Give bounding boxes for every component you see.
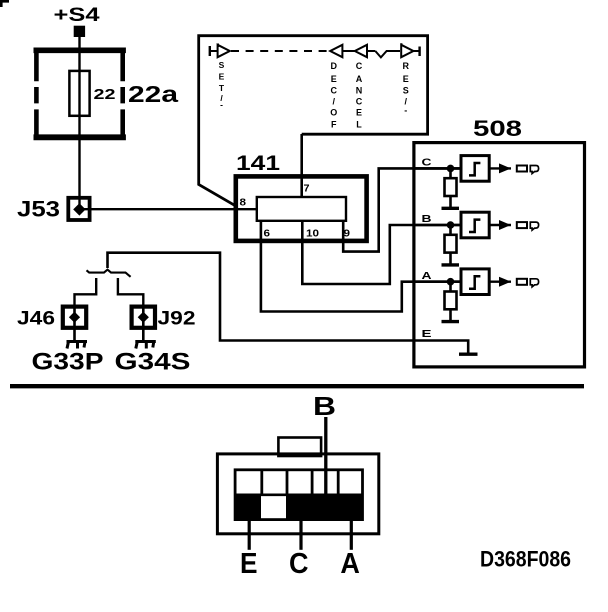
svg-text:C: C — [356, 97, 363, 107]
output wire B — [489, 224, 511, 226]
svg-text:S: S — [219, 60, 225, 70]
wire J53 to 141 pin 8 — [83, 208, 257, 210]
svg-text:D: D — [331, 61, 338, 71]
junction dot B — [447, 221, 455, 229]
svg-text:E: E — [356, 108, 362, 118]
SET arrow (diode right) — [218, 44, 230, 58]
svg-text:/: / — [333, 97, 336, 107]
sender symbol G34S — [135, 342, 156, 349]
input wire A inside 508 — [415, 280, 461, 283]
fuse holder 22a dashed box bottom edge — [34, 134, 126, 140]
svg-text:S: S — [403, 86, 409, 96]
input wire B inside 508 — [415, 224, 461, 227]
output arrow head C — [499, 163, 511, 173]
threshold trigger box C — [461, 156, 489, 182]
terminal +S4 square — [74, 26, 85, 37]
svg-text:8: 8 — [240, 198, 247, 209]
svg-text:A: A — [422, 270, 433, 282]
resistor A lower stub — [449, 309, 452, 320]
svg-text:E: E — [331, 74, 337, 84]
mechanical link (brace) between switches — [87, 270, 131, 277]
grid divider 1 — [260, 470, 263, 495]
svg-text:T: T — [219, 83, 225, 93]
svg-text:G34S: G34S — [115, 349, 191, 376]
svg-text:7: 7 — [304, 184, 310, 195]
wire branch to J92 — [118, 278, 143, 306]
svg-text:N: N — [356, 86, 363, 96]
wire switch box to pin 7 — [300, 134, 303, 198]
resistor A body — [445, 292, 457, 310]
wire J92 to sender G34S — [142, 306, 145, 340]
svg-text:E: E — [219, 72, 225, 82]
svg-text:R: R — [403, 61, 410, 71]
grid divider 2 — [286, 470, 289, 495]
control unit 141 box — [236, 176, 367, 241]
output symbol flag B — [530, 222, 538, 230]
blocked terminal left (E) — [236, 495, 261, 519]
connector housing tab — [278, 438, 321, 457]
wire J46 to sender G33P — [73, 306, 76, 340]
resistor B body — [445, 235, 457, 253]
fuse holder 22a dashed box left edge — [34, 48, 39, 141]
svg-text:B: B — [422, 213, 433, 225]
svg-text:22a: 22a — [128, 81, 178, 107]
fuse 22 body — [69, 71, 89, 116]
wire branch to J46 — [75, 278, 97, 306]
connector J92 box — [132, 307, 155, 328]
pin lead A — [350, 520, 353, 550]
svg-text:J92: J92 — [158, 309, 196, 330]
ECU 508 box — [414, 143, 585, 367]
terminal grid outline — [235, 470, 362, 520]
svg-text:O: O — [330, 108, 337, 118]
svg-text:J53: J53 — [17, 197, 60, 222]
ground bar at E — [459, 353, 478, 356]
svg-text:E: E — [403, 74, 409, 84]
svg-text:+S4: +S4 — [54, 4, 100, 26]
wire pin 10 to 508 input B — [302, 219, 461, 284]
svg-text:E: E — [240, 548, 258, 580]
step glyph A — [469, 276, 480, 288]
connector strip inside 141 — [257, 197, 346, 221]
connector J46 contact diamond — [69, 312, 80, 323]
svg-text:-: - — [220, 100, 223, 110]
svg-text:F: F — [331, 119, 337, 129]
svg-text:-: - — [404, 106, 407, 116]
svg-text:E: E — [422, 328, 432, 340]
resistor C stub — [449, 168, 452, 178]
svg-text:10: 10 — [306, 229, 320, 240]
svg-text:B: B — [313, 391, 336, 421]
connector J46 box — [63, 307, 86, 328]
resistor A stub — [449, 282, 452, 292]
svg-text:C: C — [356, 61, 363, 71]
resistor B end bar — [442, 263, 460, 266]
CANCEL arrow (diode left) — [355, 45, 367, 57]
output symbol flag A — [530, 279, 538, 287]
junction dot C — [447, 165, 455, 173]
switch contact notch — [375, 51, 400, 57]
resistor A end bar — [442, 320, 460, 323]
resistor C end bar — [442, 207, 460, 210]
output arrow head A — [499, 277, 511, 287]
wire CANCEL to notch — [367, 50, 375, 52]
junction dot A — [447, 278, 455, 286]
resistor C body — [445, 178, 457, 196]
wire pin 9 to 508 input C — [343, 168, 461, 251]
dashed wire SET to DECEL — [231, 50, 328, 52]
input wire C inside 508 — [415, 167, 461, 170]
output symbol flag C — [530, 166, 538, 174]
step glyph B — [469, 220, 480, 232]
step glyph C — [469, 163, 480, 175]
wire tick to SET arrow — [210, 50, 217, 52]
connector J92 contact diamond — [138, 312, 149, 323]
svg-text:L: L — [356, 119, 362, 129]
wire DECEL to CANCEL — [342, 50, 354, 52]
pin lead E — [248, 520, 251, 550]
svg-text:C: C — [289, 548, 309, 580]
output wire A — [489, 281, 511, 283]
wire pin 6 to 508 input A — [261, 219, 461, 312]
wire stub inside J53 — [78, 197, 80, 209]
output symbol rectangle B — [517, 222, 527, 228]
page corner mark — [0, 0, 9, 7]
svg-text:A: A — [340, 548, 360, 580]
output wire C — [489, 167, 511, 169]
switch row left terminal tick — [209, 46, 211, 56]
wire from +S4 through fuse to J53 — [78, 37, 80, 197]
resistor B lower stub — [449, 253, 452, 264]
svg-text:D368F086: D368F086 — [480, 546, 571, 571]
grid divider 3 — [311, 470, 314, 495]
connector J53 box — [68, 198, 89, 220]
fuse holder 22a dashed box right edge — [120, 48, 125, 141]
pin lead C — [299, 520, 302, 550]
DECEL arrow (diode left) — [330, 45, 342, 57]
RES arrow (diode right) — [401, 43, 413, 57]
output symbol rectangle A — [517, 279, 527, 285]
sender symbol G33P — [67, 342, 88, 349]
wire switch common to 508 terminal E — [108, 253, 469, 353]
svg-text:9: 9 — [344, 229, 351, 240]
separator rule — [10, 384, 584, 388]
lead line B — [324, 417, 327, 496]
svg-text:22: 22 — [94, 86, 116, 103]
resistor B stub — [449, 225, 452, 235]
connector J53 contact diamond — [73, 203, 85, 215]
output arrow head B — [499, 220, 511, 230]
connector housing outline — [217, 454, 378, 534]
grid divider 4 — [337, 470, 340, 495]
svg-text:508: 508 — [473, 116, 522, 141]
resistor C lower stub — [449, 196, 452, 207]
svg-text:141: 141 — [236, 152, 280, 175]
threshold trigger box B — [461, 212, 489, 238]
svg-text:C: C — [331, 86, 338, 96]
fuse holder 22a dashed box top edge — [34, 47, 126, 53]
output symbol rectangle C — [517, 166, 527, 172]
threshold trigger box A — [461, 269, 489, 295]
blocked terminals right (C-A) — [286, 495, 362, 519]
svg-text:G33P: G33P — [32, 349, 104, 376]
svg-text:6: 6 — [264, 229, 271, 240]
terminal grid row divider — [235, 493, 362, 496]
svg-text:A: A — [356, 74, 363, 84]
svg-text:J46: J46 — [17, 309, 55, 330]
wire RES arrow to tick — [413, 50, 419, 52]
steering switch assembly box outline — [199, 36, 428, 206]
svg-text:C: C — [422, 157, 433, 169]
switch row right terminal tick — [418, 47, 420, 57]
